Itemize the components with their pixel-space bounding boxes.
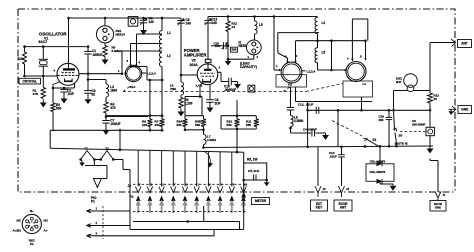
capacitor C4 variable <box>140 19 148 21</box>
svg-text:2.5MH: 2.5MH <box>207 138 216 142</box>
wire filter to meter pin <box>243 180 245 191</box>
wire between fuses <box>94 159 100 161</box>
socket O2 right stub <box>302 70 306 72</box>
wire x331 drop <box>331 41 333 70</box>
svg-text:1: 1 <box>276 64 278 68</box>
ground below C8 <box>209 105 211 108</box>
wire harness riser right <box>239 222 241 230</box>
ground hook arrow mid <box>205 152 210 164</box>
wire pin3 line <box>94 235 215 237</box>
ground shared I2/R12 <box>225 61 231 66</box>
svg-text:S1A: S1A <box>130 85 137 89</box>
inductor L4 <box>315 18 318 34</box>
wire L4 to L5 <box>317 34 319 48</box>
svg-text:140: 140 <box>212 21 217 25</box>
svg-text:J4: J4 <box>346 187 350 191</box>
wire C7 bottom <box>105 123 107 127</box>
svg-text:J3: J3 <box>323 187 327 191</box>
socket contact 8 (J2) <box>217 186 223 192</box>
svg-text:L4: L4 <box>322 21 326 25</box>
pin J5 GND <box>449 108 456 110</box>
socket contact 1 (J2) <box>135 186 141 192</box>
wire bus corner to filter <box>243 152 245 163</box>
inductor L3 <box>106 84 109 97</box>
node junction R3 top <box>23 45 26 48</box>
wire ANT lead <box>430 42 455 44</box>
capacitor C14 in rcvr-ant lead <box>341 147 343 155</box>
socket O2 coil box <box>276 75 307 87</box>
lamp DS2 <box>404 74 418 88</box>
ground at J5 <box>450 109 452 111</box>
pin contact 2 (P2) arrow <box>148 195 153 201</box>
wire C8 bottom <box>209 102 211 104</box>
resistor R7 <box>161 116 163 119</box>
ground below C3 <box>87 96 89 99</box>
wire L5 bottom <box>317 63 319 70</box>
node C4 tap <box>142 17 145 20</box>
svg-text:F1: F1 <box>85 147 89 151</box>
switch S1 blade <box>365 145 378 147</box>
crystal Y1 <box>39 58 48 60</box>
svg-text:8: 8 <box>360 55 362 59</box>
svg-text:2: 2 <box>96 221 98 225</box>
wire crystal stem bottom <box>42 66 44 76</box>
linkage diagonal to O2 <box>283 86 292 92</box>
dashed link to E3 <box>400 131 426 133</box>
pin contact 7 (P2) arrow <box>206 195 211 201</box>
svg-text:O2: O2 <box>288 82 292 86</box>
cable arrow 10 <box>241 200 246 206</box>
tube V2 screen stub <box>217 71 221 73</box>
linkage diagonal to O1 <box>123 85 132 92</box>
node tank left drop <box>273 15 276 18</box>
capacitor C1 <box>84 50 92 52</box>
resistor R9 <box>179 98 183 109</box>
wire C10 to ground <box>232 81 238 83</box>
capacitor C8 <box>206 99 214 101</box>
node groupA-x120 <box>119 129 122 132</box>
wire ant col down <box>429 110 431 127</box>
pin contact 4 (P2) arrow <box>171 195 176 201</box>
coil socket O3 <box>346 62 366 82</box>
node R10 bus <box>236 151 239 154</box>
cable arrow 8 <box>217 200 222 206</box>
diode CR2 <box>377 179 383 184</box>
svg-text:1: 1 <box>248 55 250 59</box>
wire gnd jog to rcvr-gnd pin <box>429 159 431 161</box>
boxed label CRYSTAL <box>19 78 41 84</box>
capacitor C4 drop <box>143 18 145 20</box>
node S5 bus <box>395 145 398 148</box>
svg-text:560: 560 <box>177 123 182 127</box>
tube V1 cathode lead <box>53 82 60 88</box>
pin contact 1 (P2) arrow <box>136 195 141 201</box>
svg-text:6AC7: 6AC7 <box>39 40 48 44</box>
wire screen to C10 <box>220 72 222 81</box>
chassis border (dash-dot) <box>18 9 455 193</box>
node DS1 rail <box>104 17 107 20</box>
node ant feed <box>429 109 432 112</box>
node cathode net left <box>52 87 55 90</box>
resistor R5 <box>103 46 107 57</box>
capacitor C5 <box>253 175 255 181</box>
svg-text:.2UF: .2UF <box>67 92 74 96</box>
wire feed contact 6 <box>196 151 198 186</box>
ground left of F1 <box>81 160 82 162</box>
svg-text:1: 1 <box>118 69 120 73</box>
feedthrough E3 <box>426 127 434 135</box>
svg-text:.002UF: .002UF <box>110 122 120 126</box>
boxed label ANT <box>458 40 472 48</box>
svg-text:234: 234 <box>142 123 147 127</box>
svg-text:NE51A: NE51A <box>116 32 127 36</box>
node x361 on feed <box>360 109 363 112</box>
cable arrow 7 <box>206 200 211 206</box>
inductor L2 <box>159 48 162 67</box>
wire pin 2 <box>94 225 131 227</box>
cable dashed bundle P2 side <box>133 211 247 213</box>
wire O2 bottom pin <box>290 87 292 91</box>
svg-text:2.5MH: 2.5MH <box>294 119 304 123</box>
svg-text:P2: P2 <box>130 195 134 199</box>
tube V1 plate lead up <box>68 47 70 64</box>
wire V2 grid stub <box>181 74 197 76</box>
wire feed contact 8 <box>219 152 221 187</box>
capacitor C5 series (osc coupling) <box>180 18 182 20</box>
wire S5 to bus <box>396 144 398 147</box>
capacitor C2 <box>63 88 65 89</box>
svg-text:234: 234 <box>155 123 160 127</box>
P1 pin 3 arrow <box>87 234 94 238</box>
wire x130 drop to pin1 <box>129 170 131 230</box>
wire contact6 drop <box>203 206 205 222</box>
wire feed contact 2 <box>149 150 151 186</box>
pin J6 ANT <box>451 39 456 47</box>
lamp DS1 neon <box>96 26 113 43</box>
ground below C4 <box>143 27 145 30</box>
ground below R1 <box>42 100 44 103</box>
offpage hollow arrow <box>93 160 95 166</box>
socket O3 coil box <box>343 81 373 97</box>
socket O1 pin arrows top <box>131 62 137 66</box>
wire L6 to R9 <box>180 95 182 98</box>
svg-text:L2,3,4: L2,3,4 <box>147 72 156 76</box>
wire L1 top <box>161 18 163 31</box>
svg-text:A+(B): A+(B) <box>13 229 21 233</box>
ground below R5 <box>104 57 106 60</box>
wire tap1 drop <box>136 34 138 62</box>
wire grid top rail y=46.6 <box>25 46 89 48</box>
cable arrow 5 <box>182 200 187 206</box>
socket contact 3 (J2) <box>159 186 165 192</box>
inductor L5 <box>315 48 318 63</box>
svg-text:B47: B47 <box>396 80 402 84</box>
wire heater jog <box>185 96 202 98</box>
wire inner drop to O2 <box>277 33 279 53</box>
ground below C7 <box>105 127 107 130</box>
svg-text:L4: L4 <box>363 82 367 86</box>
resistor R3 <box>23 52 27 64</box>
socket O1 pin 1 stub <box>125 72 128 74</box>
boxed label GND <box>458 106 472 114</box>
svg-text:180: 180 <box>379 118 384 122</box>
resistor R6 <box>149 116 151 119</box>
svg-text:L1: L1 <box>167 31 171 35</box>
node C1 top <box>87 45 90 48</box>
wire C4 bottom <box>143 23 145 27</box>
right bus (key line) <box>204 146 434 148</box>
node C16 top <box>388 109 391 112</box>
wire heater drop x=202 <box>201 97 203 116</box>
wire O2 feed drop <box>295 41 297 58</box>
pin contact 9 (P2) arrow <box>230 195 235 201</box>
node A top left <box>149 114 152 117</box>
wire R10 col to bus <box>236 129 238 152</box>
svg-text:J2: J2 <box>128 184 132 188</box>
node rcvr ant bus <box>340 146 343 149</box>
ground right of C10 <box>237 82 239 84</box>
node bus x120 <box>119 148 122 151</box>
node S1 hinge <box>364 145 367 148</box>
svg-text:47K: 47K <box>33 92 39 96</box>
node A top right <box>161 114 164 117</box>
svg-text:J7: J7 <box>443 194 446 197</box>
cable arrow 4 <box>171 200 176 206</box>
pin contact 5 (P2) arrow <box>183 195 188 201</box>
node chain <box>289 127 292 130</box>
group A top wire <box>106 115 164 117</box>
node x338 feed <box>337 109 340 112</box>
svg-text:P1: P1 <box>91 200 95 204</box>
tube V2 plate <box>204 69 212 71</box>
svg-text:B+: B+ <box>30 209 34 213</box>
cable arrow 2 <box>147 200 152 206</box>
boxed label METER <box>252 198 270 205</box>
tube V1 envelope <box>57 63 79 85</box>
wire heater drop x=149.9 <box>149 80 151 116</box>
node grid stub <box>180 74 183 77</box>
lamp I2 neon <box>246 40 261 55</box>
wire V2 cathode C8 drop <box>209 85 211 100</box>
node filter bl <box>242 179 245 182</box>
wire DS2 base <box>394 90 408 92</box>
node L7 bus <box>202 146 205 149</box>
switch S5 <box>395 129 397 144</box>
svg-text:C12, .01UF: C12, .01UF <box>298 103 314 107</box>
svg-text:GND: GND <box>461 108 469 112</box>
ground below C2 <box>63 96 65 99</box>
svg-text:2: 2 <box>347 57 349 61</box>
socket O2 pin arrows top <box>288 58 296 62</box>
tube V1 grids <box>62 72 76 74</box>
capacitor C4b <box>311 130 313 137</box>
wire corner rail to L4 <box>317 17 319 18</box>
svg-text:L5: L5 <box>259 23 263 27</box>
wire feed contact 4 <box>172 151 174 187</box>
boxed label RCVR GND <box>430 201 446 212</box>
capacitor C10 <box>228 78 230 86</box>
wire x338 to bus <box>337 110 339 146</box>
svg-text:S1: S1 <box>373 138 377 142</box>
svg-text:140: 140 <box>186 21 191 25</box>
wire crystal stem top <box>42 47 44 59</box>
wire E3 down <box>429 136 431 147</box>
wire coil tap 3 <box>122 50 162 52</box>
node L5 branch <box>253 15 256 18</box>
wire harness y=221.5 <box>133 221 240 223</box>
fuse F2 <box>101 151 114 160</box>
node C bot <box>236 128 239 131</box>
wire O2 box drop <box>295 87 297 102</box>
wire riser x214 <box>213 230 215 236</box>
group B bottom wire <box>185 129 204 131</box>
P1 pin 1 arrow <box>87 209 94 213</box>
svg-text:.01UF: .01UF <box>329 154 337 158</box>
wire V1 pin to y88 <box>74 83 76 88</box>
wire plate cap lead <box>207 23 209 59</box>
inductor L8 <box>290 110 292 116</box>
ground on bus end <box>429 147 431 149</box>
tube V2 top cap <box>205 59 211 62</box>
wire to ground <box>315 132 325 134</box>
wire tank tap y=40.7 <box>296 40 366 42</box>
svg-text:2,200: 2,200 <box>185 102 193 106</box>
svg-text:NC: NC <box>17 219 22 223</box>
svg-text:203A: 203A <box>190 63 199 67</box>
node rail start <box>67 17 70 20</box>
socket O1 right label <box>142 72 146 74</box>
wire R2 col to bus <box>49 130 51 148</box>
ground below R9 <box>180 109 182 112</box>
wire I2 bottom <box>253 55 255 59</box>
wire V1 heater wire <box>129 66 147 68</box>
svg-text:C4 .005UF: C4 .005UF <box>303 128 317 132</box>
svg-text:560: 560 <box>227 123 232 127</box>
capacitor C13 series in plate lead <box>207 17 209 21</box>
resistor R13 <box>429 92 431 94</box>
node filter br <box>265 179 268 182</box>
wire R10 col top <box>236 100 238 116</box>
inductor L7 <box>203 130 205 135</box>
wire feed contact 3 <box>161 151 163 187</box>
svg-text:3: 3 <box>219 66 221 70</box>
wire PA plate rail y=16.5 <box>208 16 317 18</box>
boxed label E5 <box>231 47 238 52</box>
pin J4 contact <box>339 186 345 197</box>
capacitor C7 drop <box>105 117 107 121</box>
wire antenna feed y=110.3 <box>308 109 430 111</box>
wire cathode net y=88 <box>53 87 75 89</box>
svg-text:500: 500 <box>56 106 61 110</box>
tube V2 cathode <box>203 79 211 82</box>
svg-text:1MH: 1MH <box>110 89 117 93</box>
group B top wire <box>185 115 204 117</box>
capacitor C16 <box>388 110 390 117</box>
wire S5 riser <box>394 110 395 129</box>
svg-text:A+: A+ <box>44 229 48 233</box>
wire heater drop x=185 <box>184 97 186 116</box>
pin J3 contact <box>315 186 321 197</box>
pin contact 3 (P2) arrow <box>159 195 164 201</box>
wire R1 drop <box>42 76 44 88</box>
boxed label EXT KEY <box>311 200 328 211</box>
feedthrough E1 top-left <box>128 17 138 27</box>
resistor R8B <box>203 116 205 119</box>
wire y=116.5 to group A <box>106 116 148 118</box>
node DS2 junction <box>392 109 395 112</box>
node C15 junction <box>227 45 230 48</box>
svg-text:GND: GND <box>435 205 441 209</box>
svg-text:4: 4 <box>139 61 141 65</box>
wire R4 to node <box>105 113 107 117</box>
resistor R4 <box>104 102 108 113</box>
svg-text:.005UF: .005UF <box>92 53 102 57</box>
capacitor C12 <box>287 106 295 108</box>
node feed left <box>306 109 309 112</box>
wire chain <box>290 127 292 134</box>
wire tap3 drop <box>121 51 123 74</box>
inductor L5 <box>255 21 258 34</box>
svg-text:R5, 1W: R5, 1W <box>247 158 258 162</box>
wire L5 top <box>254 17 256 22</box>
filter box R5/C5 <box>244 163 267 180</box>
connector P1 face <box>22 214 41 233</box>
socket contact 7 (J2) <box>206 186 212 192</box>
svg-text:L2: L2 <box>167 54 171 58</box>
resistor R10 <box>236 116 238 119</box>
node C16 bus <box>388 145 391 148</box>
wire screen net y=79.5 <box>88 79 106 81</box>
wire R2 to bus <box>52 112 54 132</box>
svg-text:L2,3,4: L2,3,4 <box>307 69 316 73</box>
socket contact 5 (J2) <box>182 186 188 192</box>
wire L3 to R4 <box>105 97 107 102</box>
pin contact 10 (P2) arrow <box>241 195 246 201</box>
svg-text:L5: L5 <box>322 51 326 55</box>
wire O3 rect <box>351 19 353 61</box>
svg-text:3: 3 <box>127 59 129 63</box>
wire C5 to L6 <box>180 23 182 82</box>
node B bot <box>184 129 187 132</box>
wire x120 drop <box>119 130 121 150</box>
diode network box <box>366 164 394 182</box>
inductor L1 <box>159 31 162 49</box>
wire O3 bottom drop <box>361 97 363 110</box>
wire V2 heater drop x=200 <box>199 87 201 97</box>
wire diode riser <box>379 146 381 164</box>
svg-text:CRYSTAL: CRYSTAL <box>23 79 38 83</box>
socket contact 6 (J2) <box>194 186 200 192</box>
meter pin arrow <box>241 192 246 198</box>
svg-text:4: 4 <box>54 69 56 73</box>
svg-text:82: 82 <box>92 93 96 97</box>
wire C3 bottom <box>87 93 89 96</box>
wire plate rail y=18 <box>69 17 182 19</box>
tube V2 envelope <box>197 64 218 85</box>
tube V2 pin 1,4,5 stub <box>200 83 202 87</box>
wire C1 bottom <box>87 54 89 90</box>
svg-text:4: 4 <box>296 54 298 58</box>
socket contact 9 (J2) <box>229 186 235 192</box>
svg-text:2UF: 2UF <box>215 102 221 106</box>
coil socket O2 <box>281 62 302 83</box>
socket contact 2 (J2) <box>147 186 153 192</box>
boxed label RCVR ANT <box>334 200 352 211</box>
wire ext key riser <box>317 147 319 186</box>
wire R2 column <box>52 88 54 103</box>
wire DS1 drop <box>104 18 106 26</box>
tube V2 grids <box>200 72 215 74</box>
